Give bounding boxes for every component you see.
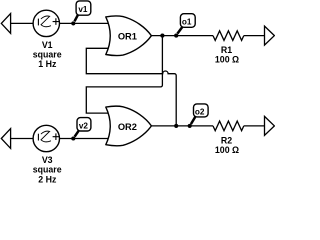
junction dot (o1 feedback) bbox=[160, 34, 164, 38]
voltage source V1 bbox=[33, 10, 59, 36]
wire V1 to OR1 input A bbox=[59, 22, 109, 24]
svg-text:OR2: OR2 bbox=[118, 122, 137, 132]
R2 value labels bbox=[215, 136, 239, 155]
V3 value labels bbox=[33, 155, 62, 184]
svg-text:100 Ω: 100 Ω bbox=[215, 145, 239, 155]
svg-text:square: square bbox=[33, 165, 62, 175]
svg-text:V1: V1 bbox=[42, 40, 53, 50]
wire R1 to port P2 bbox=[244, 35, 265, 37]
resistor R1 bbox=[213, 31, 244, 41]
wire port P1 to V1 bbox=[11, 22, 34, 24]
port P2 (right arrow, top) bbox=[265, 26, 275, 45]
svg-text:o2: o2 bbox=[195, 108, 205, 117]
node v2 label bbox=[75, 118, 91, 137]
wire o1 feedback to OR2 input A bbox=[86, 36, 162, 113]
voltage source V3 bbox=[33, 125, 59, 151]
wire port P3 to V3 bbox=[11, 138, 34, 140]
port P4 (right arrow, bottom) bbox=[265, 116, 275, 135]
wire V3 to OR2 input B bbox=[59, 138, 109, 140]
node o1 dot bbox=[174, 34, 178, 38]
wire OR1 output to R1 bbox=[151, 35, 213, 37]
svg-text:o1: o1 bbox=[182, 18, 192, 27]
svg-text:v2: v2 bbox=[79, 121, 89, 130]
svg-text:V3: V3 bbox=[42, 155, 53, 165]
svg-text:v1: v1 bbox=[78, 5, 88, 14]
svg-text:2 Hz: 2 Hz bbox=[38, 174, 57, 183]
node v2 dot bbox=[71, 136, 75, 140]
svg-text:OR1: OR1 bbox=[118, 32, 137, 42]
node o1 label bbox=[177, 14, 195, 34]
junction dot (o2 feedback) bbox=[174, 124, 178, 128]
node o2 label bbox=[191, 104, 208, 124]
wire o2 feedback to OR1 input B (with hop over o1 feedback) bbox=[86, 48, 176, 126]
or-gate OR2 bbox=[106, 106, 152, 146]
port P3 (left arrow, bottom) bbox=[1, 129, 10, 149]
wire R2 to port P4 bbox=[244, 125, 265, 127]
wire OR2 output to R2 bbox=[151, 125, 213, 127]
port P1 (left arrow, top) bbox=[1, 14, 10, 34]
svg-text:1 Hz: 1 Hz bbox=[38, 59, 57, 69]
resistor R2 bbox=[213, 121, 244, 131]
node o2 dot bbox=[188, 124, 192, 128]
V1 value labels bbox=[33, 40, 62, 69]
node v1 dot bbox=[71, 21, 75, 25]
or-gate OR1 bbox=[106, 16, 152, 56]
R1 value labels bbox=[215, 45, 239, 64]
svg-text:100 Ω: 100 Ω bbox=[215, 55, 239, 65]
node v1 label bbox=[75, 1, 91, 21]
